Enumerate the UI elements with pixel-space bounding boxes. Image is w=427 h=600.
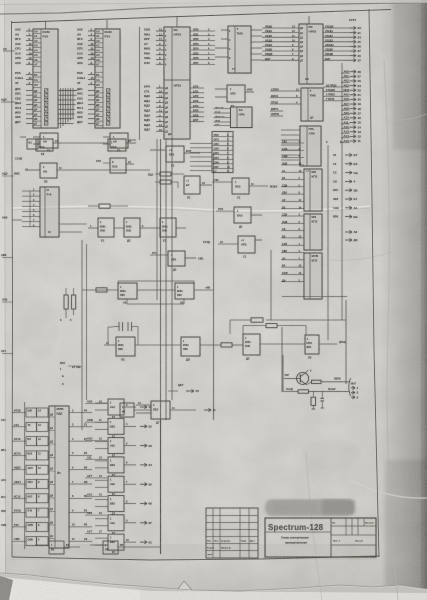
wire RAM D2 top	[106, 20, 108, 29]
gate D17 small box left	[27, 139, 38, 149]
resistor R6 row1	[96, 288, 107, 292]
frame border left	[12, 21, 13, 557]
net arrow ЦЕТ 15	[168, 383, 199, 393]
inverter D24 (К561 ЛН2) a	[88, 218, 114, 243]
capacitor C4	[320, 391, 324, 408]
gate D21 (ЛА3) mid	[212, 178, 278, 200]
title block revision table	[206, 508, 258, 558]
oscillator loop wires row1	[82, 281, 213, 304]
wire through R5	[88, 205, 128, 207]
IC D36 (МЛВ ВД1) decoder tall block	[49, 406, 69, 548]
gate D14 (ЛА3) upper mid	[100, 139, 136, 151]
gate column ЛА3 bottom with arrows	[95, 399, 152, 554]
paper creases	[12, 206, 370, 211]
gate D33 (К561 ЛЕ5) osc2 d	[305, 335, 346, 360]
gate D30 (К561 ЛА7) osc2 a	[104, 337, 135, 362]
osc2 feedback wires	[108, 327, 138, 346]
edge connector arrows top right A-bus	[323, 18, 361, 145]
net РА5 КТ 5мГ labels	[60, 361, 82, 386]
vertical wire to audio	[266, 300, 346, 392]
clock generator D20 (БГ1)	[184, 176, 212, 200]
inverter D25 (К561 ЛН2) b	[114, 218, 152, 243]
capacitors C1 C2	[113, 322, 138, 331]
IC D5 (ТМ8) top	[215, 26, 251, 73]
keyboard matrix small boxes column	[13, 408, 48, 546]
IC D6 (АП5) below D5	[215, 85, 254, 108]
RAM chip D1 (РУ5)	[15, 28, 58, 129]
resistor R4	[160, 180, 171, 184]
left bus spine in keyboard cluster	[24, 402, 26, 549]
resistors R7 R8 vertical pair	[60, 288, 76, 322]
pin ladder below D5 (СИ rows)	[190, 132, 233, 174]
gate D37 bottom strip a	[35, 541, 80, 554]
gate D31 (К561 ЛА7) osc2 b	[135, 337, 221, 362]
gate D28 (К561) osc a	[118, 283, 137, 305]
title block right grid	[331, 518, 376, 557]
pin stubs right of D3	[190, 28, 215, 123]
IC D11 (МS КП2) multiplexer 2	[304, 214, 322, 250]
IC D8 (ТМ8) mid right	[270, 88, 323, 121]
vertical bus lines mid page	[140, 27, 272, 554]
wire audio feed horizontal	[282, 296, 347, 298]
gate D16 (ЛА9) below RAM D2	[103, 133, 136, 153]
gates ЛЕ5 row upper (D19)	[150, 146, 200, 168]
long vertical wires into bottom cluster	[59, 224, 161, 554]
data bus wires between RAM D1 and D2	[58, 88, 77, 128]
gate D27 (ЛЕ5) with arrow СМ1	[150, 251, 204, 272]
page top edge line	[0, 3, 427, 15]
gate D38 bottom strip b	[90, 541, 134, 554]
transistor VT1	[283, 355, 312, 391]
net labels АД8 КМС	[2, 169, 28, 177]
title block main box with Spectrum-128	[265, 518, 376, 557]
gate D13 (ЛА3) top	[36, 139, 62, 156]
IC D9 (ПЛИ АП6)	[281, 126, 321, 173]
resistor R5 mid-left	[99, 204, 110, 208]
resistor R3	[160, 172, 171, 176]
resistor R9 osc2	[221, 343, 232, 347]
IC D3 (КР НР25 / НР32) tall block	[164, 27, 190, 139]
gate D14b (ЛА3)	[96, 158, 134, 173]
torn bottom paper edge	[0, 573, 427, 600]
IC D7 (КС НР25) video controller	[299, 16, 323, 84]
frame border bottom	[12, 556, 379, 560]
resistor R11 audio top	[230, 318, 263, 334]
gate D29 (К561) osc b	[175, 283, 194, 305]
inverter D26 (К561 ЛН2) c	[152, 218, 186, 243]
gate D34 (ЛЕ2) with arrow 11	[136, 401, 216, 425]
gate D23 (АТВ)	[203, 236, 262, 259]
resistor R12 emitter	[307, 377, 351, 385]
wires near БГ1	[148, 173, 184, 189]
erased grey smudge above title	[266, 500, 352, 515]
wire RAM top to frame	[45, 21, 47, 29]
IC D6b (НР8) below АП5	[214, 107, 253, 128]
resistor R13 lower audio	[283, 388, 349, 393]
net label У1Т left	[2, 298, 13, 303]
RAM chip D2 (РУ5)	[77, 28, 120, 129]
wire labels between D5 and D7	[262, 25, 299, 61]
video output arrows right edge	[333, 153, 359, 242]
wires osc2 to D32	[232, 344, 243, 346]
output rows right of D7 with signal names	[323, 25, 350, 61]
small gate D35 left of D34	[120, 403, 151, 417]
bus stubs from left frame to keyboard	[1, 413, 14, 542]
gate D22 (ЛА3) mid2	[216, 207, 262, 229]
gate D32 (К561 ЛН2) osc2 c	[243, 334, 260, 361]
frame border right	[369, 9, 379, 557]
shift register D18 (ИР-8)	[22, 187, 59, 237]
inverter D2a (АН)	[26, 163, 150, 184]
address labels column АВ...	[85, 400, 107, 534]
IC D12 (МУВ КП2) multiplexer 3	[304, 253, 322, 299]
wire across bottom	[134, 546, 160, 548]
wires D5 to right	[251, 30, 262, 60]
IC D10 (МS КП2) multiplexer 1	[304, 169, 322, 211]
output stubs right of decoder	[69, 409, 92, 541]
connector МАГ	[349, 378, 359, 399]
capacitor C3 vertical	[311, 391, 316, 409]
wire D3 top to frame	[176, 17, 178, 28]
gate D15 (ЛА9) below RAM D1	[20, 133, 58, 153]
long vertical wires right of multiplexers	[326, 141, 342, 340]
pin labels column for D3	[144, 28, 164, 132]
wire D13 to D14	[62, 142, 100, 144]
pin labels column for multiplexers	[281, 140, 304, 283]
resistor R10 above	[243, 324, 306, 336]
frame border top	[12, 10, 391, 23]
wire D32 out to D33	[260, 343, 305, 345]
vertical wire right of D7	[341, 63, 343, 145]
